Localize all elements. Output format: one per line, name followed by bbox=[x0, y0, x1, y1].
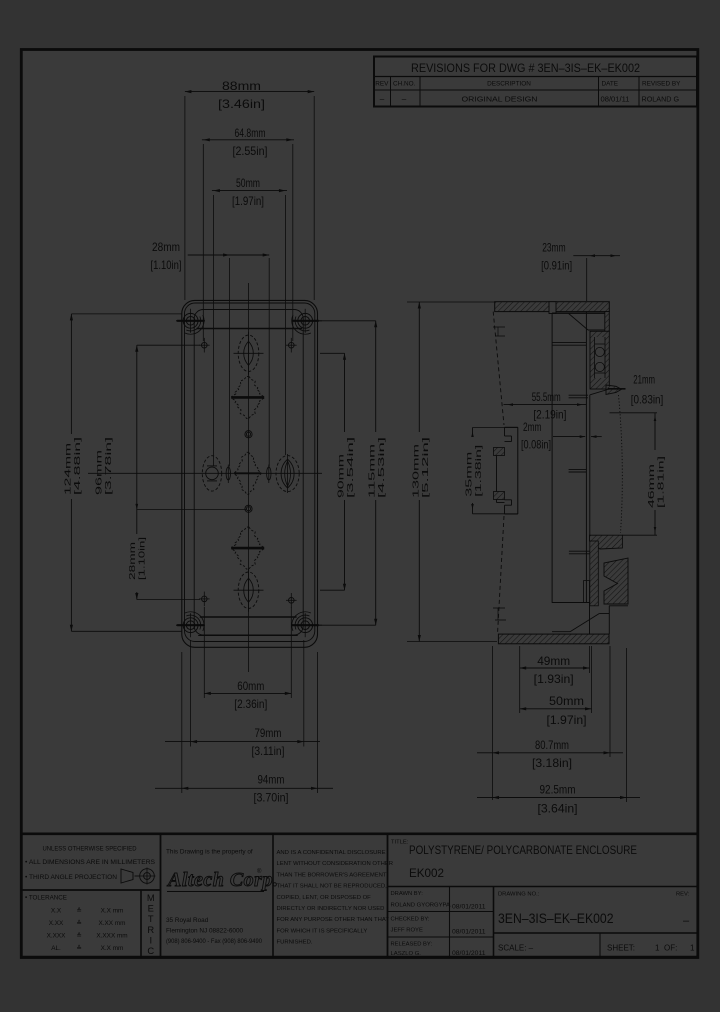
svg-text:[1.81in]: [1.81in] bbox=[657, 456, 666, 508]
svg-text:THAN THE BORROWER'S AGREEMENT: THAN THE BORROWER'S AGREEMENT bbox=[277, 872, 387, 878]
svg-text:≙: ≙ bbox=[76, 945, 81, 952]
svg-text:55.5mm: 55.5mm bbox=[532, 390, 561, 404]
svg-text:94mm: 94mm bbox=[258, 772, 285, 786]
svg-text:X.XX mm: X.XX mm bbox=[99, 920, 126, 927]
svg-text:DRAWN BY:: DRAWN BY: bbox=[391, 891, 424, 897]
svg-text:AND IS A CONFIDENTIAL DISCLOSU: AND IS A CONFIDENTIAL DISCLOSURE bbox=[277, 850, 386, 856]
svg-text:SCALE: –: SCALE: – bbox=[498, 944, 534, 953]
svg-text:50mm: 50mm bbox=[236, 176, 260, 190]
svg-text:ORIGINAL DESIGN: ORIGINAL DESIGN bbox=[462, 95, 538, 104]
svg-text:LASZLO G.: LASZLO G. bbox=[391, 951, 422, 957]
svg-text:[3.78in]: [3.78in] bbox=[104, 437, 113, 495]
svg-text:60mm: 60mm bbox=[237, 679, 264, 693]
svg-text:3EN–3IS–EK–EK002: 3EN–3IS–EK–EK002 bbox=[498, 911, 614, 926]
svg-text:R: R bbox=[147, 924, 154, 935]
svg-text:–: – bbox=[402, 95, 407, 104]
svg-text:• ALL DIMENSIONS ARE IN MI: • ALL DIMENSIONS ARE IN MILLIMETERS bbox=[25, 859, 155, 866]
svg-text:[0.91in]: [0.91in] bbox=[541, 258, 572, 272]
svg-text:[0.83in]: [0.83in] bbox=[631, 392, 664, 406]
svg-text:REV: REV bbox=[375, 81, 389, 88]
svg-text:08/01/11: 08/01/11 bbox=[601, 95, 630, 104]
svg-text:[3.18in]: [3.18in] bbox=[532, 756, 572, 770]
svg-text:COPIED, LENT, OR DISPOSED OF: COPIED, LENT, OR DISPOSED OF bbox=[277, 895, 372, 901]
svg-text:124mm: 124mm bbox=[64, 442, 73, 495]
svg-text:REVISIONS FOR DWG # 3EN–3IS: REVISIONS FOR DWG # 3EN–3IS–EK–EK002 bbox=[411, 61, 640, 75]
svg-text:X.X mm: X.X mm bbox=[101, 945, 124, 952]
svg-text:[4.53in]: [4.53in] bbox=[377, 437, 386, 498]
svg-text:08/01/2011: 08/01/2011 bbox=[452, 950, 486, 957]
svg-text:[1.10in]: [1.10in] bbox=[151, 258, 182, 272]
svg-text:2mm: 2mm bbox=[523, 420, 542, 434]
svg-text:80.7mm: 80.7mm bbox=[535, 738, 569, 752]
svg-text:RELEASED BY:: RELEASED BY: bbox=[391, 942, 433, 948]
svg-text:DATE: DATE bbox=[602, 81, 619, 88]
svg-text:DESCRIPTION: DESCRIPTION bbox=[487, 81, 531, 88]
svg-text:35 Royal Road: 35 Royal Road bbox=[166, 917, 209, 924]
svg-text:[1.93in]: [1.93in] bbox=[534, 672, 574, 686]
svg-text:Altech Corp.: Altech Corp. bbox=[166, 869, 278, 891]
svg-text:28mm: 28mm bbox=[128, 541, 137, 580]
svg-text:≙: ≙ bbox=[76, 920, 81, 927]
svg-text:–: – bbox=[380, 95, 385, 104]
svg-text:1: 1 bbox=[655, 944, 660, 953]
svg-text:[3.46in]: [3.46in] bbox=[218, 97, 265, 111]
svg-text:• TOLERANCE: • TOLERANCE bbox=[25, 895, 67, 902]
svg-text:EK002: EK002 bbox=[409, 866, 444, 880]
svg-text:1: 1 bbox=[690, 944, 695, 953]
svg-text:E: E bbox=[148, 903, 154, 914]
svg-text:[0.08in]: [0.08in] bbox=[521, 438, 551, 452]
svg-text:[3.70in]: [3.70in] bbox=[254, 790, 289, 804]
svg-text:46mm: 46mm bbox=[647, 463, 656, 508]
svg-text:Flemington NJ 08822-6000: Flemington NJ 08822-6000 bbox=[166, 928, 244, 935]
svg-text:FURNISHED.: FURNISHED. bbox=[277, 940, 313, 946]
svg-text:[1.97in]: [1.97in] bbox=[547, 713, 587, 727]
svg-text:(908) 806-9400 - Fax (908) 806: (908) 806-9400 - Fax (908) 806-9490 bbox=[166, 938, 263, 945]
svg-text:TITLE:: TITLE: bbox=[391, 840, 409, 846]
svg-text:DIRECTLY OR INDIRECTLY NOR USE: DIRECTLY OR INDIRECTLY NOR USED bbox=[277, 906, 385, 912]
svg-text:130mm: 130mm bbox=[411, 443, 420, 498]
svg-text:AL.: AL. bbox=[51, 945, 61, 952]
svg-text:[3.11in]: [3.11in] bbox=[252, 744, 285, 758]
svg-text:21mm: 21mm bbox=[633, 372, 655, 386]
svg-text:I: I bbox=[149, 934, 152, 945]
svg-text:T: T bbox=[148, 913, 154, 924]
svg-text:REVISED BY: REVISED BY bbox=[642, 81, 681, 88]
svg-text:[5.12in]: [5.12in] bbox=[421, 437, 430, 498]
svg-text:92.5mm: 92.5mm bbox=[540, 783, 576, 797]
svg-text:[2.36in]: [2.36in] bbox=[234, 697, 267, 711]
svg-text:08/01/2011: 08/01/2011 bbox=[452, 929, 486, 936]
svg-text:08/01/2011: 08/01/2011 bbox=[452, 904, 486, 911]
svg-text:UNLESS OTHERWISE SPECIFIED: UNLESS OTHERWISE SPECIFIED bbox=[43, 846, 137, 853]
svg-text:90mm: 90mm bbox=[337, 453, 346, 498]
svg-text:[1.38in]: [1.38in] bbox=[474, 445, 483, 497]
svg-text:JEFF ROYE: JEFF ROYE bbox=[391, 928, 423, 934]
svg-text:®: ® bbox=[257, 868, 262, 875]
svg-text:88mm: 88mm bbox=[222, 79, 261, 93]
svg-text:96mm: 96mm bbox=[95, 449, 104, 495]
svg-text:64.8mm: 64.8mm bbox=[235, 126, 266, 140]
svg-text:This Drawing is the property o: This Drawing is the property of bbox=[166, 849, 253, 856]
svg-text:THAT IT SHALL NOT BE REPRODUCE: THAT IT SHALL NOT BE REPRODUCED, bbox=[277, 884, 388, 890]
svg-text:28mm: 28mm bbox=[152, 240, 180, 254]
svg-text:X.XXX: X.XXX bbox=[47, 933, 67, 940]
svg-text:FOR ANY PURPOSE OTHER THAN THA: FOR ANY PURPOSE OTHER THAN THAT bbox=[277, 917, 390, 923]
svg-text:[4.88in]: [4.88in] bbox=[73, 437, 82, 495]
svg-text:LENT WITHOUT CONSIDERATION OTH: LENT WITHOUT CONSIDERATION OTHER bbox=[277, 861, 394, 867]
svg-text:SHEET:: SHEET: bbox=[607, 944, 635, 953]
svg-text:X.XXX mm: X.XXX mm bbox=[96, 933, 127, 940]
svg-text:X.X mm: X.X mm bbox=[101, 908, 124, 915]
svg-text:79mm: 79mm bbox=[255, 726, 282, 740]
svg-text:POLYSTYRENE/ POLYCARBONATE: POLYSTYRENE/ POLYCARBONATE ENCLOSURE bbox=[409, 843, 637, 857]
svg-text:[3.64in]: [3.64in] bbox=[538, 802, 578, 816]
svg-text:FOR WHICH IT IS SPECIFICALLY: FOR WHICH IT IS SPECIFICALLY bbox=[277, 928, 368, 934]
svg-text:CH.NO.: CH.NO. bbox=[393, 81, 416, 88]
svg-text:[3.54in]: [3.54in] bbox=[346, 437, 355, 498]
svg-text:ROLAND GYORGYPA.: ROLAND GYORGYPA. bbox=[391, 903, 452, 909]
svg-text:23mm: 23mm bbox=[542, 241, 565, 255]
svg-text:• THIRD ANGLE PROJECTION: • THIRD ANGLE PROJECTION bbox=[25, 874, 117, 881]
svg-text:≙: ≙ bbox=[76, 933, 81, 940]
svg-text:49mm: 49mm bbox=[537, 654, 570, 668]
svg-text:OF:: OF: bbox=[664, 944, 677, 953]
svg-text:X.X: X.X bbox=[51, 908, 62, 915]
svg-text:[2.55in]: [2.55in] bbox=[233, 144, 268, 158]
svg-text:C: C bbox=[147, 945, 154, 956]
svg-text:REV:: REV: bbox=[676, 892, 690, 898]
svg-text:X.XX: X.XX bbox=[49, 920, 64, 927]
svg-text:50mm: 50mm bbox=[549, 694, 584, 708]
svg-text:–: – bbox=[683, 915, 690, 927]
svg-text:[1.10in]: [1.10in] bbox=[138, 537, 147, 580]
svg-text:≙: ≙ bbox=[76, 908, 81, 915]
svg-text:ROLAND G: ROLAND G bbox=[642, 95, 680, 104]
svg-text:M: M bbox=[147, 892, 155, 903]
svg-text:[1.97in]: [1.97in] bbox=[232, 194, 264, 208]
svg-text:DRAWING NO.:: DRAWING NO.: bbox=[498, 892, 540, 898]
svg-text:115mm: 115mm bbox=[368, 443, 377, 498]
svg-text:35mm: 35mm bbox=[465, 451, 474, 497]
svg-text:CHECKED BY:: CHECKED BY: bbox=[391, 917, 430, 923]
